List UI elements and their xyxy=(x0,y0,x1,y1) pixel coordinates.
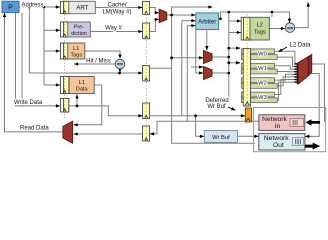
svg-text:L1: L1 xyxy=(73,46,79,52)
svg-text:W3: W3 xyxy=(258,95,267,101)
svg-text:LM(Way #): LM(Way #) xyxy=(102,9,131,15)
svg-text:Address: Address xyxy=(22,2,44,8)
svg-text:Network: Network xyxy=(262,116,288,123)
svg-text:Wr Buf: Wr Buf xyxy=(207,104,226,110)
svg-text:Wr Buf: Wr Buf xyxy=(212,135,230,141)
svg-text:W0: W0 xyxy=(258,52,267,58)
svg-text:Hit / Miss: Hit / Miss xyxy=(86,58,111,64)
svg-text:Tags: Tags xyxy=(254,29,266,35)
svg-text:P: P xyxy=(8,5,13,12)
svg-text:Pre-: Pre- xyxy=(74,25,84,31)
svg-text:Cache/: Cache/ xyxy=(107,3,126,9)
svg-text:diction: diction xyxy=(71,31,87,37)
svg-text:L1: L1 xyxy=(79,80,85,86)
svg-text:Network: Network xyxy=(264,135,290,142)
svg-text:ART: ART xyxy=(76,6,88,12)
svg-text:Data: Data xyxy=(76,87,89,93)
svg-text:L2: L2 xyxy=(257,22,263,28)
svg-text:L2 Data: L2 Data xyxy=(289,42,311,48)
svg-text:W1: W1 xyxy=(258,66,267,72)
svg-text:W2: W2 xyxy=(258,81,267,87)
svg-text:Out: Out xyxy=(273,142,284,149)
svg-text:Deferred: Deferred xyxy=(205,98,228,104)
svg-text:==: == xyxy=(287,26,293,32)
svg-text:Tags: Tags xyxy=(70,53,82,59)
svg-text:==: == xyxy=(117,62,123,68)
svg-text:Way #: Way # xyxy=(105,25,122,31)
svg-text:Read Data: Read Data xyxy=(20,126,49,132)
svg-text:Write Data: Write Data xyxy=(14,100,43,106)
svg-text:In: In xyxy=(275,123,281,130)
svg-text:Arbiter: Arbiter xyxy=(198,19,216,26)
